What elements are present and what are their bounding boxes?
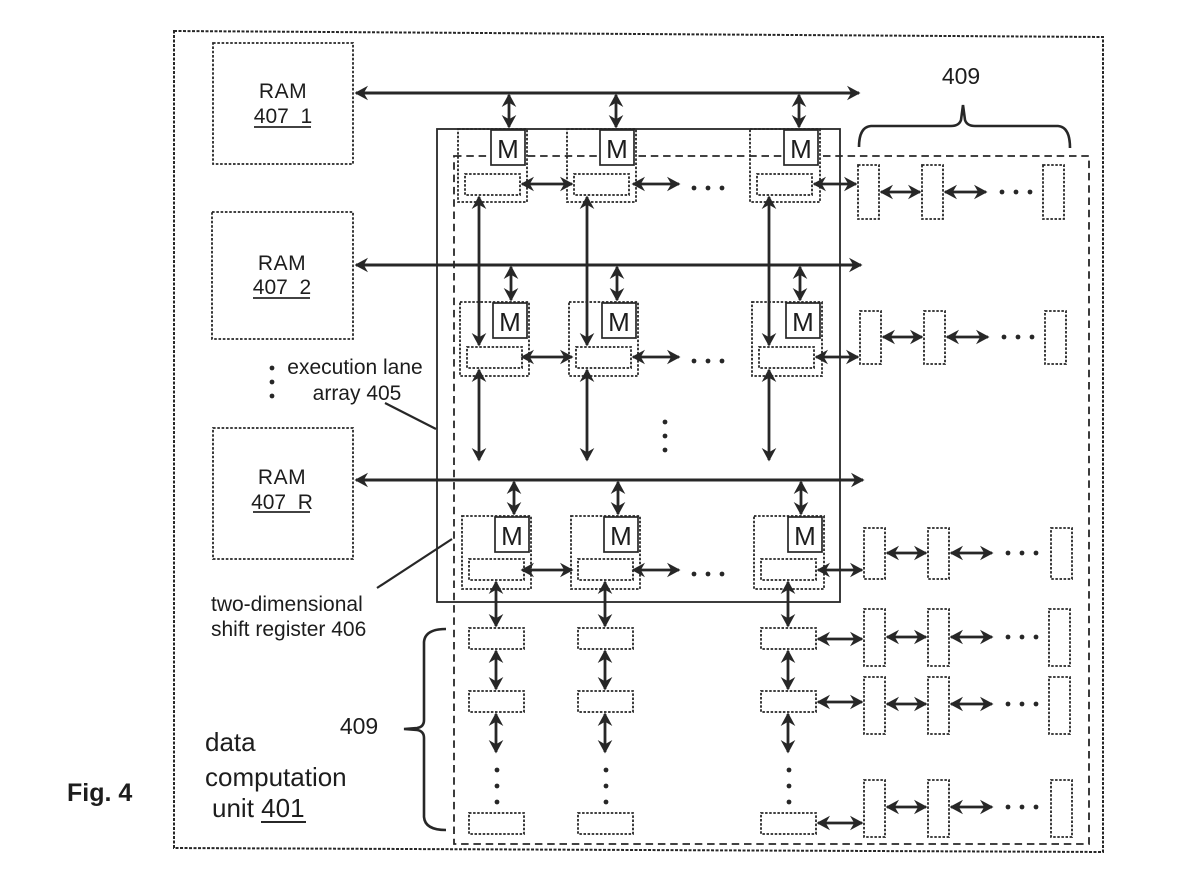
execution lane cell row2 col2 xyxy=(569,302,638,376)
arrow: halo row3 B rightward (to omitted cells) xyxy=(951,552,992,555)
arrow: row3 register to bottom row A col2 xyxy=(604,582,607,626)
arrow: row1 register col1 to col2 xyxy=(522,183,572,186)
ellipsis dots: omitted bottom rows col2 xyxy=(604,768,609,805)
arrow: bus3 to cell row3 col2 xyxy=(617,482,620,514)
arrow: row6 col3 register to halo cell A xyxy=(818,822,862,825)
arrow: bus1 to cell row1 col3 xyxy=(798,95,801,127)
arrow: bus3 to cell row3 col3 xyxy=(800,482,803,514)
arrow: row4 col3 register to halo cell A xyxy=(818,638,862,641)
arrow: row3 register col2 rightward (to omitted lanes) xyxy=(633,569,679,572)
halo register cell row3 A xyxy=(864,528,885,579)
execution lane cell row1 col2 xyxy=(567,129,636,202)
arrow: bus2 to cell row2 col3 xyxy=(799,267,802,300)
ellipsis dots: omitted halo cells row3 xyxy=(1006,551,1039,556)
RAM 407_2 box xyxy=(212,212,353,339)
svg-text:M: M xyxy=(794,521,816,551)
arrow: halo row4 A to B xyxy=(887,636,926,639)
ellipsis dots: omitted halo cells row6 xyxy=(1006,805,1039,810)
shift register element row4 col3 xyxy=(761,628,816,649)
arrow: bottom row B col3 downward (to omitted rows) xyxy=(787,714,790,752)
arrow: bottom row A to row B col3 xyxy=(787,651,790,689)
arrow: row5 col3 register to halo cell A xyxy=(818,701,862,704)
halo register cell row2 A xyxy=(860,311,881,364)
execution lane cell row1 col1 xyxy=(458,129,527,202)
ellipsis dots: omitted bottom rows col1 xyxy=(495,768,500,805)
ellipsis dots: omitted lanes row1 xyxy=(692,186,725,191)
arrow: halo row5 B rightward (to omitted cells) xyxy=(951,703,992,706)
halo register cell row6 C xyxy=(1051,780,1072,837)
svg-text:RAM: RAM xyxy=(258,252,306,275)
svg-text:data: data xyxy=(205,727,256,757)
arrow: row2 register col2 downward (to omitted rows) xyxy=(586,370,589,460)
shift register element row5 col3 xyxy=(761,691,816,712)
memory unit M box row1 col1 xyxy=(491,130,525,165)
memory unit M box row2 col3 xyxy=(786,303,820,338)
pointer line: label 406 to dashed shift register border xyxy=(377,539,452,588)
shift register element row4 col2 xyxy=(578,628,633,649)
pointer line: label 405 to execution lane array box xyxy=(385,403,436,429)
ellipsis dots: omitted lanes row3 xyxy=(692,572,725,577)
svg-text:Fig. 4: Fig. 4 xyxy=(67,779,132,807)
svg-text:shift register 406: shift register 406 xyxy=(211,618,366,641)
svg-text:two-dimensional: two-dimensional xyxy=(211,593,363,616)
arrow: bus2 to cell row2 col2 xyxy=(616,267,619,300)
memory unit M box row3 col3 xyxy=(788,517,822,552)
arrow: halo row1 A to B xyxy=(881,191,920,194)
svg-text:409: 409 xyxy=(340,713,378,739)
execution lane cell row3 col2 xyxy=(571,516,640,589)
RAM 407_1 box xyxy=(213,43,353,164)
shift register element row3 col2 xyxy=(578,559,633,580)
shift register element row3 col1 xyxy=(469,559,524,580)
svg-text:computation: computation xyxy=(205,762,347,792)
ellipsis dots: omitted lanes row2 xyxy=(692,359,725,364)
arrow: bus1 to cell row1 col2 xyxy=(615,95,618,127)
box: data computation unit 401 outer border xyxy=(174,31,1103,852)
arrow: row1 register col2 rightward (to omitted lanes) xyxy=(633,183,679,186)
arrow: halo row1 B rightward (to omitted cells) xyxy=(945,191,986,194)
halo register cell row1 A xyxy=(858,165,879,219)
arrow: row2 register col2 rightward (to omitted lanes) xyxy=(633,356,679,359)
shift register element row2 col2 xyxy=(576,347,631,368)
halo register cell row4 A xyxy=(864,609,885,666)
shift register element row5 col2 xyxy=(578,691,633,712)
memory unit M box row1 col3 xyxy=(784,130,818,165)
arrow: halo row3 A to B xyxy=(887,552,926,555)
memory unit M box row2 col2 xyxy=(602,303,636,338)
arrow: halo row2 B rightward (to omitted cells) xyxy=(947,336,988,339)
memory unit M box row1 col2 xyxy=(600,130,634,165)
arrow: row3 register to bottom row A col3 xyxy=(787,582,790,626)
execution lane cell row3 col1 xyxy=(462,516,531,589)
ellipsis dots: omitted RAM rows xyxy=(270,366,275,399)
svg-text:M: M xyxy=(606,134,628,164)
shift register element row6 col1 xyxy=(469,813,524,834)
halo register cell row1 B xyxy=(922,165,943,219)
svg-text:M: M xyxy=(790,134,812,164)
svg-text:RAM: RAM xyxy=(259,80,307,103)
ellipsis dots: omitted halo cells row2 xyxy=(1002,335,1035,340)
shift register element row1 col1 xyxy=(465,174,520,195)
arrow: row1 to row2 register col1 xyxy=(478,197,481,345)
svg-text:407 2: 407 2 xyxy=(253,276,311,299)
svg-text:M: M xyxy=(608,307,630,337)
svg-text:M: M xyxy=(792,307,814,337)
box: execution lane array 405 xyxy=(437,129,840,602)
arrow: halo row5 A to B xyxy=(887,703,926,706)
svg-text:409: 409 xyxy=(942,63,980,89)
halo register cell row5 A xyxy=(864,677,885,734)
halo register cell row2 B xyxy=(924,311,945,364)
halo register cell row6 A xyxy=(864,780,885,837)
ellipsis dots: omitted halo cells row5 xyxy=(1006,702,1039,707)
halo register cell row6 B xyxy=(928,780,949,837)
svg-text:M: M xyxy=(499,307,521,337)
arrow: bottom row B col2 downward (to omitted rows) xyxy=(604,714,607,752)
svg-text:array 405: array 405 xyxy=(313,382,402,405)
arrow: row1 to row2 register col2 xyxy=(586,197,589,345)
brace: 409 top (over halo columns) xyxy=(859,105,1070,148)
arrow: bottom row A to row B col1 xyxy=(495,651,498,689)
execution lane cell row3 col3 xyxy=(754,516,824,589)
execution lane cell row1 col3 xyxy=(750,129,820,202)
ellipsis dots: omitted halo cells row1 xyxy=(1000,190,1033,195)
svg-text:unit 401: unit 401 xyxy=(212,793,305,823)
arrow: bus2 to cell row2 col1 xyxy=(510,267,513,300)
ellipsis dots: omitted bottom rows col3 xyxy=(787,768,792,805)
arrow: row2 register col3 downward (to omitted rows) xyxy=(768,370,771,460)
arrow: halo row6 A to B xyxy=(887,806,926,809)
svg-text:RAM: RAM xyxy=(258,466,306,489)
svg-text:M: M xyxy=(501,521,523,551)
arrow: bottom row B col1 downward (to omitted rows) xyxy=(495,714,498,752)
halo register cell row2 C xyxy=(1045,311,1066,364)
shift register element row4 col1 xyxy=(469,628,524,649)
shift register element row6 col3 xyxy=(761,813,816,834)
halo register cell row4 B xyxy=(928,609,949,666)
arrow: row1 col3 register to halo cell A xyxy=(814,183,856,186)
arrow: row3 register col1 to col2 xyxy=(522,569,572,572)
halo register cell row5 C xyxy=(1049,677,1070,734)
halo register cell row3 B xyxy=(928,528,949,579)
shift register element row1 col3 xyxy=(757,174,812,195)
brace: 409 left (bottom register rows) xyxy=(404,629,446,830)
execution lane cell row2 col3 xyxy=(752,302,822,376)
arrow: row3 col3 register to halo cell A xyxy=(818,569,862,572)
arrow: row2 col3 register to halo cell A xyxy=(816,356,858,359)
shift register element row5 col1 xyxy=(469,691,524,712)
halo register cell row3 C xyxy=(1051,528,1072,579)
memory unit M box row2 col1 xyxy=(493,303,527,338)
shift register element row1 col2 xyxy=(574,174,629,195)
svg-text:407 1: 407 1 xyxy=(254,105,312,128)
execution lane cell row2 col1 xyxy=(460,302,529,376)
arrow: halo row4 B rightward (to omitted cells) xyxy=(951,636,992,639)
halo register cell row4 C xyxy=(1049,609,1070,666)
arrow: row3 register to bottom row A col1 xyxy=(495,582,498,626)
arrow: row2 register col1 to col2 xyxy=(522,356,572,359)
arrow: bus3 to cell row3 col1 xyxy=(513,482,516,514)
arrow: halo row6 B rightward (to omitted cells) xyxy=(951,806,992,809)
svg-text:M: M xyxy=(610,521,632,551)
bus: RAM 407_R horizontal bus xyxy=(356,479,863,482)
shift register element row3 col3 xyxy=(761,559,816,580)
halo register cell row5 B xyxy=(928,677,949,734)
ellipsis dots: omitted halo cells row4 xyxy=(1006,635,1039,640)
arrow: bottom row A to row B col2 xyxy=(604,651,607,689)
svg-text:407 R: 407 R xyxy=(251,491,313,514)
arrow: row1 to row2 register col3 xyxy=(768,197,771,345)
halo register cell row1 C xyxy=(1043,165,1064,219)
bus: RAM 407_1 horizontal bus xyxy=(356,92,859,95)
svg-text:execution lane: execution lane xyxy=(287,356,422,379)
ellipsis dots: omitted rows between row2 and row3 xyxy=(663,420,668,453)
bus: RAM 407_2 horizontal bus xyxy=(356,264,861,267)
RAM 407_R box xyxy=(213,428,353,559)
shift register element row2 col1 xyxy=(467,347,522,368)
memory unit M box row3 col1 xyxy=(495,517,529,552)
shift register element row6 col2 xyxy=(578,813,633,834)
arrow: row2 register col1 downward (to omitted rows) xyxy=(478,370,481,460)
box: two-dimensional shift register 406 (dashed border) xyxy=(454,156,1089,844)
arrow: halo row2 A to B xyxy=(883,336,922,339)
arrow: bus1 to cell row1 col1 xyxy=(508,95,511,127)
memory unit M box row3 col2 xyxy=(604,517,638,552)
svg-text:M: M xyxy=(497,134,519,164)
shift register element row2 col3 xyxy=(759,347,814,368)
